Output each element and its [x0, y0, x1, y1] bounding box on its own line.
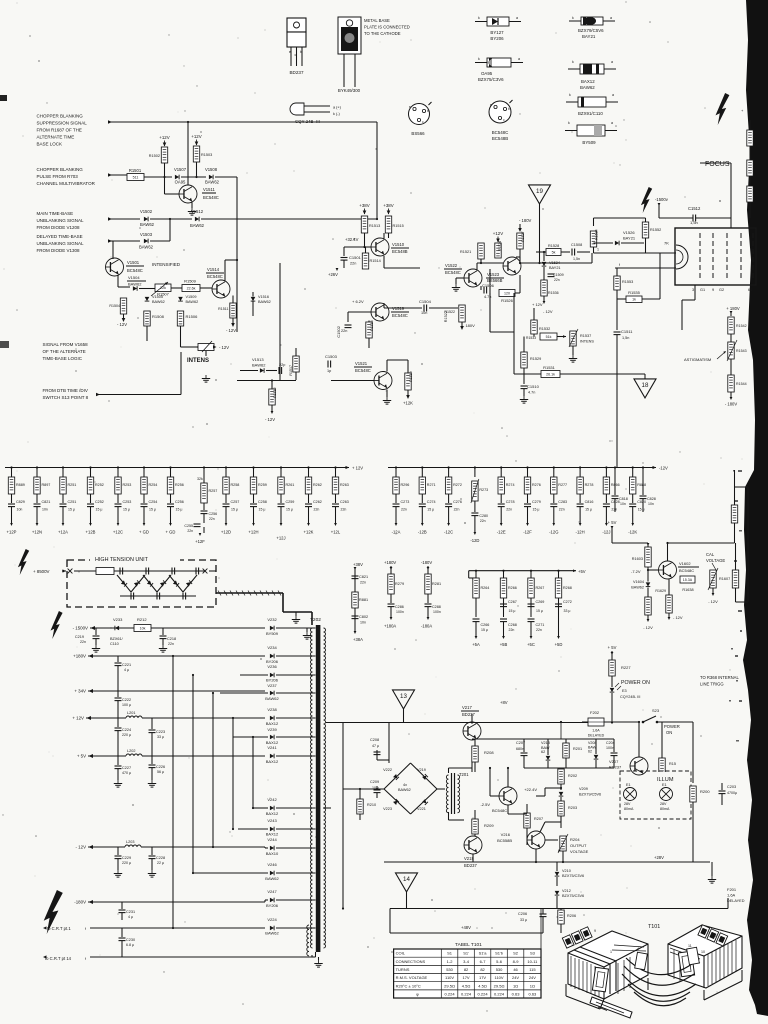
- rail -180V: [74, 900, 268, 905]
- svg-text:+12V: +12V: [159, 135, 169, 140]
- wire band B column -12A: [395, 466, 397, 477]
- wire focus: [700, 163, 731, 228]
- capacitor C259: [278, 494, 295, 512]
- svg-text:C251: C251: [68, 500, 77, 504]
- resistor R267: [528, 570, 545, 617]
- svg-text:C818: C818: [619, 497, 628, 501]
- wire band A out +12A: [62, 507, 65, 526]
- supply +12V R1503: [191, 134, 201, 146]
- svg-text:+12V: +12V: [493, 231, 503, 236]
- note delayed time-base: [37, 234, 85, 253]
- capacitor C816: [577, 494, 594, 512]
- svg-text:R296: R296: [401, 483, 410, 487]
- svg-text:6: 6: [715, 934, 717, 938]
- svg-text:R1629: R1629: [655, 589, 666, 593]
- svg-text:V1501: V1501: [127, 260, 140, 265]
- capacitor second row 0: [473, 619, 490, 636]
- svg-text:5-6: 5-6: [496, 959, 503, 964]
- svg-text:V1513: V1513: [252, 357, 264, 362]
- wire band B out -12E: [500, 507, 503, 526]
- svg-text:22n: 22n: [168, 642, 174, 646]
- svg-text:64: 64: [748, 288, 752, 292]
- wire mid drops: [508, 721, 562, 845]
- svg-text:R251: R251: [68, 483, 77, 487]
- bridge diode V223: [383, 799, 399, 811]
- svg-text:R277: R277: [558, 483, 567, 487]
- wire left col: [342, 789, 344, 910]
- svg-text:7K: 7K: [664, 241, 669, 246]
- resistor R271: [419, 477, 436, 494]
- svg-text:C255: C255: [184, 524, 193, 528]
- svg-text:33 μ: 33 μ: [564, 609, 571, 613]
- svg-text:FROM DIODE V1208: FROM DIODE V1208: [37, 225, 81, 230]
- svg-text:V1507: V1507: [174, 167, 187, 172]
- svg-text:BAY21: BAY21: [623, 236, 636, 241]
- bridge diode V222: [383, 768, 399, 780]
- diode V1512: [190, 209, 205, 228]
- resistor R259: [250, 477, 267, 494]
- svg-text:22n: 22n: [611, 508, 617, 512]
- svg-text:k (-): k (-): [333, 112, 340, 116]
- svg-text:+ GD: + GD: [139, 530, 149, 535]
- wire V243 tap: [237, 828, 239, 830]
- wire psu v2: [377, 756, 389, 763]
- capacitor C267: [500, 600, 517, 613]
- resistor R1517: [289, 348, 299, 380]
- note chopper blanking suppression: [37, 114, 88, 147]
- T101 winding arcs: [622, 958, 696, 1006]
- capacitor C255: [184, 514, 204, 533]
- svg-text:- 180V: - 180V: [463, 323, 475, 328]
- label +12H: [248, 530, 258, 535]
- wire gun line f: [615, 263, 676, 268]
- svg-text:9: 9: [712, 288, 714, 292]
- svg-text:R1514: R1514: [370, 259, 381, 263]
- svg-text:f: f: [85, 927, 86, 931]
- OA95 label: [478, 71, 504, 82]
- capacitor C821: [34, 494, 51, 512]
- capacitor C1501: [341, 247, 362, 268]
- wire V1511 base: [165, 177, 180, 194]
- BY509 package: [565, 121, 617, 136]
- wire V214 collector: [507, 767, 509, 787]
- svg-text:80mA: 80mA: [624, 807, 634, 811]
- svg-text:R1607: R1607: [719, 577, 730, 581]
- svg-text:C271: C271: [536, 623, 545, 627]
- CRT gun: [676, 245, 688, 269]
- transistor V214: [480, 787, 517, 813]
- zener V212: [555, 889, 584, 909]
- svg-text:17V: 17V: [462, 975, 469, 980]
- svg-text:C274: C274: [427, 500, 436, 504]
- svg-text:R279: R279: [395, 582, 404, 586]
- label F201: [727, 887, 745, 903]
- svg-text:5k: 5k: [552, 250, 556, 254]
- rail +12V: [72, 711, 265, 721]
- diode V1513: [240, 357, 277, 373]
- wire band B out -12A: [395, 507, 398, 526]
- svg-text:+5B: +5B: [500, 642, 508, 647]
- svg-text:4700μ: 4700μ: [727, 791, 737, 795]
- svg-text:R263: R263: [340, 483, 349, 487]
- svg-text:BD237: BD237: [464, 863, 477, 868]
- svg-text:BC548C: BC548C: [492, 808, 507, 813]
- label +38A: [353, 631, 363, 642]
- svg-text:a: a: [612, 93, 614, 97]
- svg-text:15 μ: 15 μ: [427, 508, 434, 512]
- svg-text:22n: 22n: [509, 628, 515, 632]
- zener V209: [559, 787, 601, 801]
- svg-text:1Ω: 1Ω: [530, 983, 535, 988]
- svg-text:47 μ: 47 μ: [372, 744, 379, 748]
- svg-text:R268: R268: [563, 586, 572, 590]
- svg-text:C268: C268: [508, 623, 517, 627]
- wire ladder v3: [212, 692, 214, 848]
- bridge rectifier diamond: [384, 763, 437, 814]
- svg-text:BC548C: BC548C: [207, 274, 223, 279]
- svg-text:R.M.S. VOLTAGE: R.M.S. VOLTAGE: [396, 975, 428, 980]
- svg-text:+12J: +12J: [276, 536, 285, 541]
- svg-text:CHOPPER BLANKING: CHOPPER BLANKING: [37, 114, 84, 119]
- svg-text:OA95: OA95: [481, 71, 493, 76]
- wire chopper node: [163, 176, 237, 332]
- svg-text:C110: C110: [110, 642, 119, 646]
- svg-text:C276: C276: [453, 500, 462, 504]
- svg-text:BAW62: BAW62: [128, 282, 142, 287]
- resistor R252: [87, 477, 104, 494]
- svg-text:V1521: V1521: [355, 361, 368, 366]
- wire V1519 base: [348, 311, 371, 313]
- svg-text:+180V: +180V: [73, 654, 86, 659]
- svg-text:DELAYED: DELAYED: [727, 899, 745, 903]
- svg-text:33 μ: 33 μ: [520, 918, 527, 922]
- svg-text:R202: R202: [568, 774, 577, 778]
- svg-text:R1506: R1506: [186, 314, 199, 319]
- label -180V right: [725, 397, 738, 407]
- capacitor C251: [60, 494, 77, 512]
- svg-text:V209: V209: [579, 787, 588, 791]
- resistor R1532: [531, 320, 550, 337]
- table TABEL T101 title: [455, 942, 482, 948]
- svg-text:BZX61/: BZX61/: [110, 637, 124, 641]
- resistor R1604: [645, 597, 651, 620]
- capacitor C258: [250, 494, 267, 512]
- svg-text:R267: R267: [536, 586, 545, 590]
- svg-text:S3: S3: [530, 951, 536, 956]
- EHT series resistor: [96, 568, 205, 575]
- svg-text:17V: 17V: [479, 975, 486, 980]
- svg-text:V236: V236: [267, 664, 277, 669]
- wire band B column -12H: [579, 466, 581, 477]
- transistor V218: [463, 836, 482, 868]
- svg-text:-180V: -180V: [421, 560, 432, 565]
- capacitor C207: [516, 739, 528, 768]
- label -12B: [418, 530, 427, 535]
- T101 right block: [668, 925, 742, 988]
- pot R1537 INTENS: [569, 329, 595, 362]
- wire V1510 emitter: [384, 256, 420, 268]
- svg-text:C278: C278: [506, 500, 515, 504]
- svg-text:V1510: V1510: [392, 242, 405, 247]
- capacitor C221: [115, 656, 132, 697]
- svg-text:1-2: 1-2: [447, 959, 454, 964]
- svg-text:TO R368 INTERNAL: TO R368 INTERNAL: [700, 675, 739, 680]
- wire band A out +12P: [10, 507, 13, 526]
- capacitor C829: [8, 494, 25, 512]
- svg-text:C259: C259: [286, 500, 295, 504]
- svg-text:SWITCH S13 POINT 8: SWITCH S13 POINT 8: [43, 395, 89, 400]
- capacitor C219: [75, 628, 100, 652]
- svg-text:T202: T202: [310, 617, 321, 623]
- diode V246: [193, 862, 316, 881]
- svg-text:BY509: BY509: [582, 140, 596, 145]
- svg-text:BC548C: BC548C: [355, 368, 371, 373]
- svg-text:+180V: +180V: [384, 560, 396, 565]
- svg-text:V219: V219: [417, 768, 426, 772]
- EHT multiplier wires: [114, 571, 200, 596]
- svg-text:6.8 μ: 6.8 μ: [126, 943, 134, 947]
- svg-text:R252: R252: [95, 483, 104, 487]
- diode V208: [588, 739, 598, 768]
- capacitor C226: [148, 765, 165, 787]
- svg-text:1,6A: 1,6A: [592, 729, 600, 733]
- label +32.4V: [345, 237, 359, 242]
- resistor R1536: [541, 280, 559, 304]
- svg-text:C256: C256: [175, 500, 184, 504]
- svg-text:22n: 22n: [536, 628, 542, 632]
- capacitor C821b: [352, 575, 369, 585]
- svg-text:28V: 28V: [660, 802, 667, 806]
- svg-text:TURNS: TURNS: [396, 967, 410, 972]
- wire V1521 base: [237, 380, 374, 382]
- svg-text:S1'b: S1'b: [495, 951, 504, 956]
- wire R1506 to intens: [181, 346, 194, 348]
- svg-text:C203: C203: [727, 785, 736, 789]
- triangle marker 19: [529, 185, 551, 204]
- svg-text:PULSE FROM R703: PULSE FROM R703: [37, 174, 79, 179]
- EHT cable ground: [292, 612, 300, 623]
- supply -12V R1504: [117, 314, 127, 327]
- svg-text:T201: T201: [459, 772, 469, 777]
- label + GD: [139, 530, 149, 535]
- wire V218 connections: [449, 812, 474, 862]
- svg-text:R209: R209: [484, 823, 494, 828]
- svg-text:BAX12: BAX12: [266, 832, 279, 837]
- zener V233: [110, 617, 124, 646]
- resistor R264: [473, 570, 490, 617]
- svg-text:22n: 22n: [401, 508, 407, 512]
- svg-text:BAW62: BAW62: [258, 300, 271, 304]
- wire band A out + GD: [169, 507, 172, 526]
- svg-text:C252: C252: [95, 500, 104, 504]
- svg-text:C273: C273: [401, 500, 410, 504]
- label supply top right: [741, 108, 744, 113]
- svg-text:CQY24B- III: CQY24B- III: [620, 695, 640, 699]
- svg-text:R1502: R1502: [149, 154, 160, 158]
- svg-text:100 μ: 100 μ: [122, 703, 131, 707]
- wire DTB arrow: [96, 352, 181, 396]
- ILLUM dashed box: [620, 771, 691, 819]
- svg-text:CONNECTIONS: CONNECTIONS: [396, 959, 426, 964]
- wire V1510 base: [344, 246, 371, 248]
- svg-text:4 μ: 4 μ: [128, 915, 133, 919]
- capacitor C280: [471, 501, 488, 523]
- label +28V: [384, 855, 710, 862]
- wire band B out -12G: [552, 507, 555, 526]
- transistor V1510: [371, 238, 409, 256]
- svg-text:BAY21: BAY21: [582, 34, 596, 39]
- svg-text:V1504: V1504: [128, 275, 140, 280]
- label -12A: [392, 530, 401, 535]
- svg-text:C262: C262: [313, 500, 322, 504]
- svg-text:a: a: [611, 60, 613, 64]
- diode V1505: [145, 295, 165, 304]
- BY127/BY206 label: [490, 30, 504, 41]
- bolt CRT feed: [44, 890, 63, 934]
- svg-text:+26V: +26V: [328, 272, 338, 277]
- diode V1508 BAW62: [205, 167, 237, 185]
- svg-text:+ 5V: + 5V: [77, 754, 86, 759]
- resistor R268: [555, 570, 572, 617]
- svg-text:10n: 10n: [620, 502, 626, 506]
- resistor R1504: [109, 298, 126, 314]
- resistor R201: [563, 739, 582, 768]
- label -12D: [470, 516, 479, 543]
- resistor R254: [141, 477, 158, 494]
- svg-text:V1503: V1503: [140, 232, 153, 237]
- svg-text:k: k: [572, 16, 574, 20]
- svg-text:b: b: [508, 107, 510, 111]
- resistor R281: [425, 574, 441, 603]
- wire V1522-V1523: [477, 259, 503, 270]
- svg-text:V208: V208: [588, 741, 596, 745]
- metal base note: [364, 18, 410, 36]
- svg-text:+12K: +12K: [403, 401, 413, 406]
- svg-text:15 μ: 15 μ: [533, 508, 540, 512]
- svg-text:R212: R212: [137, 617, 147, 622]
- svg-text:BZX91/C110: BZX91/C110: [578, 111, 603, 116]
- resistor R1529: [521, 337, 541, 375]
- supply -12V R1629: [668, 615, 683, 620]
- svg-text:T101: T101: [648, 924, 660, 930]
- svg-text:C279: C279: [532, 500, 541, 504]
- resistor R1638 box: [680, 576, 695, 592]
- resistor R1508: [144, 311, 165, 326]
- T101 label: [648, 924, 660, 930]
- diode V1526: [594, 230, 645, 245]
- capacitor C229: [114, 847, 131, 877]
- svg-text:R1535: R1535: [628, 290, 641, 295]
- svg-text:to C.R.T pt.1: to C.R.T pt.1: [47, 926, 71, 931]
- wire bottom rail: [390, 909, 728, 934]
- label POWER ON top: [621, 680, 650, 686]
- wire band A out +12N: [36, 507, 39, 526]
- svg-text:F202: F202: [590, 710, 600, 715]
- svg-text:C1512: C1512: [688, 206, 701, 211]
- svg-text:BYK49/300: BYK49/300: [338, 88, 361, 93]
- svg-text:15 μ: 15 μ: [286, 508, 293, 512]
- resistor R212: [134, 617, 151, 632]
- svg-text:BAW62: BAW62: [152, 300, 165, 304]
- wire V1602 base: [647, 569, 659, 571]
- svg-text:-12K: -12K: [628, 530, 637, 535]
- svg-text:15 μ: 15 μ: [536, 609, 543, 613]
- table top wire: [540, 909, 542, 950]
- svg-text:+12H: +12H: [248, 530, 258, 535]
- svg-text:C227: C227: [122, 766, 131, 770]
- svg-text:26.1k: 26.1k: [546, 372, 555, 376]
- rail -1500V: [73, 626, 265, 631]
- svg-text:+32.4V: +32.4V: [345, 237, 359, 242]
- svg-text:k: k: [568, 121, 570, 125]
- svg-text:R204: R204: [570, 837, 580, 842]
- BZX79 label: [578, 28, 604, 39]
- wire long rail to CRT: [520, 253, 592, 263]
- ground bottom mid: [708, 862, 716, 883]
- svg-text:CHOPPER BLANKING: CHOPPER BLANKING: [37, 167, 84, 172]
- wire mid verticals: [490, 293, 514, 374]
- svg-text:- 12V: - 12V: [226, 328, 236, 333]
- svg-text:UNBLANKING SIGNAL: UNBLANKING SIGNAL: [37, 218, 85, 223]
- wire ladder h2: [193, 847, 213, 873]
- diode V236: [240, 664, 316, 683]
- svg-text:k: k: [572, 60, 574, 64]
- T202 core: [316, 625, 321, 952]
- svg-text:V213: V213: [541, 741, 550, 745]
- capacitor C206: [518, 909, 547, 931]
- resistor R253: [115, 477, 132, 494]
- T202 secondary winding: [324, 628, 326, 948]
- capacitor C262: [305, 494, 322, 512]
- svg-text:22n: 22n: [559, 508, 565, 512]
- svg-text:+48V: +48V: [461, 925, 471, 930]
- resistor R1516: [366, 320, 374, 348]
- svg-text:k: k: [478, 57, 480, 61]
- rail +180V: [73, 654, 265, 659]
- T201 transformer: [446, 772, 469, 814]
- label -180V: [460, 322, 475, 330]
- label +12P: [7, 530, 17, 535]
- svg-text:- 12V: - 12V: [117, 322, 127, 327]
- wire band A out +12C: [117, 507, 120, 526]
- T202 label: [310, 617, 321, 623]
- wire vertical x280: [279, 263, 281, 380]
- svg-text:8-9: 8-9: [513, 959, 520, 964]
- wire band B out -12K: [631, 507, 634, 526]
- zener V210: [555, 862, 584, 886]
- resistor R279: [388, 574, 404, 603]
- svg-text:15 μ: 15 μ: [509, 609, 516, 613]
- label -1500V mid: [655, 197, 669, 218]
- scan edge black band right: [743, 0, 768, 1016]
- BS566 label: [411, 131, 425, 136]
- resistor R203: [558, 801, 577, 828]
- svg-text:V246: V246: [267, 862, 277, 867]
- resistor R888: [630, 477, 647, 494]
- label TO R368: [700, 675, 739, 687]
- svg-text:+12A: +12A: [58, 530, 68, 535]
- diode V241: [266, 745, 316, 764]
- label +12K: [304, 530, 314, 535]
- svg-text:R1524: R1524: [498, 241, 502, 251]
- label FOCUS: [705, 161, 730, 168]
- label +12A: [58, 530, 68, 535]
- svg-text:V1505: V1505: [152, 295, 163, 299]
- svg-text:BD237: BD237: [462, 712, 475, 717]
- svg-text:C224: C224: [122, 728, 131, 732]
- diode V1502: [140, 209, 155, 227]
- svg-text:R889: R889: [16, 483, 25, 487]
